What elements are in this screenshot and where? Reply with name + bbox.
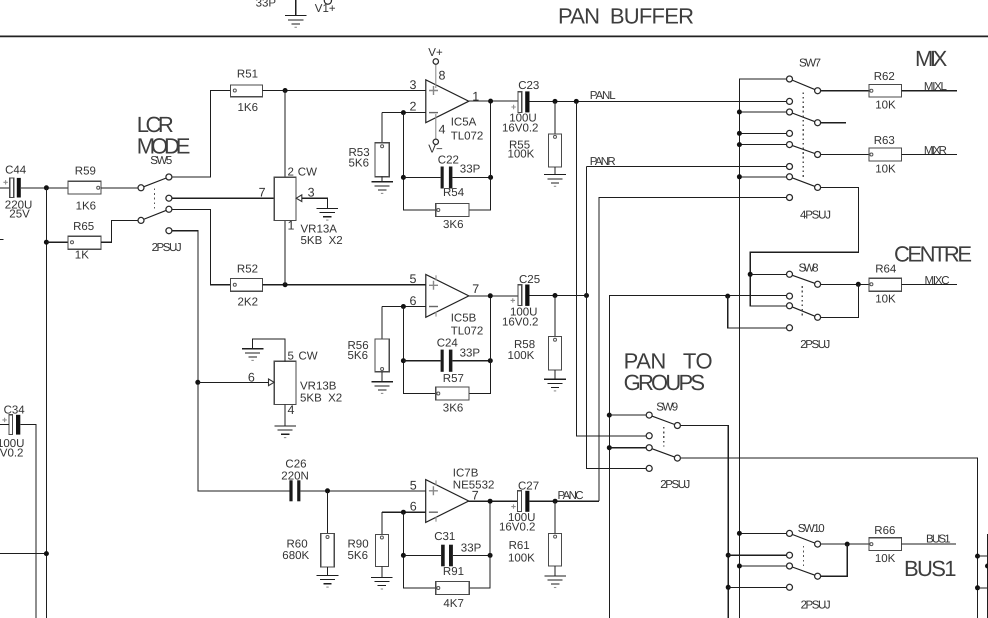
op-amp IC7B [426,480,469,523]
switch SW7 contacts [787,76,793,82]
node junction R64 in [856,282,861,287]
resistor R91 4K7 [436,582,469,595]
wire (C25 out row) [530,295,587,297]
node junction right bus upper [975,554,980,559]
capacitor C34 100U 16V0.2 (clipped at left) [2,415,20,435]
ground (R58) [544,379,566,391]
svg-text:SW10: SW10 [798,523,825,535]
svg-text:V−: V− [428,144,443,156]
switch SW8 gang dotted link [801,286,803,316]
svg-text:C44: C44 [5,165,27,177]
resistor R62 10K [869,84,901,97]
switch SW9 contacts [646,412,652,418]
title separator line [0,35,988,37]
wire (SW10 pole1 common to R66) [818,543,870,545]
svg-text:IC5A: IC5A [451,117,477,129]
svg-text:CW: CW [299,351,318,363]
svg-text:SW9: SW9 [656,402,678,414]
svg-text:16V0.2: 16V0.2 [502,123,538,135]
node junction IC7B pin6 [401,510,406,515]
svg-text:10K: 10K [875,100,896,112]
wire (tap down to SW8 pole2 throw) [728,296,787,328]
wire (junction down to VR13A pin2) [284,91,286,178]
svg-text:7: 7 [259,186,266,200]
svg-text:C27: C27 [518,481,539,493]
wire (R61 riser) [554,501,556,533]
svg-text:5: 5 [288,351,294,363]
switch SW7 pole2 arm [790,112,818,123]
wire (SW5 pole2 throw2 down to VR13B/C26) [169,231,290,491]
wire PANC riser (x=599) [599,198,787,502]
wire (R53 to ground) [381,177,383,182]
node junction right edge [985,564,988,569]
node junction C31 right [488,553,493,558]
wire mono bus (x=739) [739,79,786,618]
wire (SW7 pole4 common down to SW8 feed) [750,187,858,305]
svg-text:R91: R91 [443,566,464,578]
svg-text:100K: 100K [508,148,535,160]
node junction bottom-left [44,551,49,556]
wire (SW5 throw1 to R51 riser) [169,91,231,178]
svg-text:C34: C34 [4,405,26,417]
wire (C23 out / PANL row) [530,100,787,102]
node junction bus tap (SW10 pole1 throw1) [737,531,742,536]
wire (feed to SW10 pole2 throw2) [728,586,787,588]
wire (right edge vertical) [987,534,988,618]
ground (VR13B pin5) [242,349,264,361]
wire (R64 to MIXC) [901,283,956,285]
svg-text:8: 8 [439,69,446,83]
svg-text:R52: R52 [237,264,258,276]
node junction R55 tap [553,99,558,104]
svg-text:R90: R90 [348,539,369,551]
resistor R64 10K [869,278,901,291]
wire (SW10 pole2 common up to R66 in) [818,544,848,576]
wire PANL drop (x=576) [576,101,646,435]
switch SW8 pole1 arm [790,274,818,284]
svg-text:1K: 1K [75,250,89,262]
wire (C27 out / PANC row) [529,500,598,502]
resistor R61 100K (vertical) [549,534,562,566]
svg-text:5: 5 [410,478,417,492]
wire (right bus stub lower) [978,587,988,589]
svg-text:C22: C22 [438,155,459,167]
svg-text:BUS1: BUS1 [904,556,957,581]
svg-text:GROUPS: GROUPS [624,370,706,395]
svg-text:4K7: 4K7 [443,598,463,610]
wire (IC7B pin6 net) [382,511,426,513]
svg-text:3K6: 3K6 [443,219,463,231]
svg-text:33P: 33P [460,348,481,360]
svg-text:R54: R54 [443,187,465,199]
resistor R60 680K (vertical) [321,534,335,567]
node V1+ terminal circle [324,0,331,4]
svg-text:33P: 33P [256,0,277,10]
svg-text:MIXL: MIXL [924,81,948,93]
svg-text:VR13B: VR13B [300,381,337,393]
svg-text:16V0.2: 16V0.2 [0,448,23,460]
wire (R51 out to IC5A pin3) [262,90,425,92]
wire (C44 to junction) [21,187,68,189]
wire (R90 to ground) [381,566,383,577]
wire (R65 to SW5 pole2) [101,220,138,242]
wire PANR row to SW7 [587,166,787,168]
wire (C31 row right) [453,554,490,556]
wire stub (left edge) [0,238,4,240]
svg-text:33P: 33P [461,543,482,555]
svg-text:R62: R62 [874,71,895,83]
wire (R60 to ground) [327,567,329,576]
node junction SW10 pole1 feed [726,553,731,558]
ground (R90) [371,577,393,589]
wire (C31 row left) [403,554,441,556]
wire (R63 to MIXR) [901,154,956,156]
svg-text:2PSUJ: 2PSUJ [152,242,182,254]
wire (SW7 pole3 common to R63) [818,154,870,156]
svg-text:2: 2 [288,167,294,179]
svg-text:5K6: 5K6 [348,550,368,562]
wire (IC7B output to C27) [469,500,518,502]
wire (bus to SW7 pole3 throw1) [739,144,786,146]
switch SW10 pole1 arm [790,533,818,544]
svg-text:PANL: PANL [590,90,617,102]
wire (C22 row left) [403,176,440,178]
wire (R61 to ground) [554,566,556,576]
wire (SW7 pole2 common stub) [818,122,846,124]
switch SW5 pole1 arm [141,177,169,188]
svg-text:2PSUJ: 2PSUJ [660,479,690,491]
svg-text:10K: 10K [875,294,896,306]
svg-text:7: 7 [472,489,479,503]
wire (SW9 pole1 common down to SW10 feeds) [677,426,728,618]
switch SW7 pole1 arm [790,79,818,91]
wire (C34 to down rail) [20,424,36,618]
power stub (IC5B top) [435,275,437,280]
switch SW8 contacts [787,271,793,277]
wire (VR13B pin5 up over to ground) [253,339,286,361]
node junction PANR riser [584,293,589,298]
svg-text:SW8: SW8 [799,262,819,274]
capacitor C25 100U 16V0.2 [511,285,530,306]
svg-text:4PSUJ: 4PSUJ [800,210,831,222]
svg-text:MIXR: MIXR [924,145,947,157]
svg-text:PANC: PANC [558,490,584,502]
svg-text:2K2: 2K2 [238,296,258,308]
node junction PANL branch [574,99,579,104]
svg-text:5K6: 5K6 [349,158,369,170]
wire (R59 to SW5) [101,187,138,189]
wire (feed to SW10 pole1 throw2) [728,554,787,556]
wire (SW8 pole2 common up to R64 in) [818,284,859,317]
wire (feedback riser left IC5B) [403,307,435,394]
potentiometer VR13B 5KB X2 [269,361,297,404]
op-amp IC5A [426,80,469,123]
wire (C24 row right) [452,360,490,362]
node junction C22 right [488,175,493,180]
wire (R56 tap) [381,307,383,340]
resistor R51 1K6 [230,85,262,97]
wire external feed (x=609) [609,296,787,618]
svg-text:SW7: SW7 [799,57,821,69]
svg-text:680K: 680K [282,550,309,562]
switch SW9 pole1 arm [649,415,677,425]
node junction SW9 pole1 feed [607,413,612,418]
wire (feedback riser left IC5A) [403,113,435,210]
svg-text:TL072: TL072 [451,131,484,143]
wire (R52 out to IC5B pin5) [262,284,425,286]
svg-text:C24: C24 [437,338,459,350]
node junction IC7B out [488,499,493,504]
svg-text:C26: C26 [285,459,306,471]
wire (feedback riser right IC7B) [469,501,490,588]
svg-text:IC7B: IC7B [453,468,479,480]
switch SW9 gang dotted link [663,427,665,447]
wire (feedback riser right IC5B) [469,296,490,394]
wire (C26 out to IC7B pin5) [300,490,425,492]
node junction SW8 pole1 feed [748,272,753,277]
svg-text:R66: R66 [874,525,895,537]
node junction bus tap (SW10 pole2 throw1) [737,564,742,569]
svg-text:1K6: 1K6 [76,200,96,212]
svg-text:MIX: MIX [915,46,948,71]
svg-text:5: 5 [410,272,417,286]
node junction IC5B out [488,293,493,298]
wire (feedback riser left IC7B) [403,512,435,588]
node junction IC5B pin6 [401,304,406,309]
wire (feed to SW9 pole1 throw1) [609,414,646,416]
switch SW10 contacts [787,530,793,536]
ground (R56) [371,382,393,394]
svg-text:CW: CW [298,167,317,179]
svg-text:PAN BUFFER: PAN BUFFER [558,3,694,28]
svg-text:3: 3 [308,186,315,200]
resistor R58 100K (vertical) [549,337,562,371]
wire (SW5 pole2 throw1 to R52 riser) [169,209,231,284]
node junction C24 right [488,358,493,363]
svg-text:PANR: PANR [590,156,616,168]
switch SW10 pole2 arm [790,566,818,576]
node junction C31 left [401,553,406,558]
wire (bus to SW7 pole2 throw2) [739,132,786,134]
wire (SW8 pole1 common to R64) [818,283,870,285]
svg-text:R63: R63 [874,135,895,147]
node junction right bus lower [975,585,980,590]
svg-text:V+: V+ [428,47,443,59]
svg-text:1: 1 [288,219,295,233]
svg-text:R57: R57 [443,373,464,385]
svg-text:16V0.2: 16V0.2 [502,316,538,328]
ground (VR13A wiper) [317,208,339,220]
power stub (IC5B bottom) [435,312,437,317]
resistor R59 1K6 [68,181,101,194]
wire (tap to VR13B wiper) [198,381,269,383]
node junction VR13B wiper tap [195,380,200,385]
resistor R53 5K6 (vertical) [375,143,389,177]
svg-text:R64: R64 [875,263,897,275]
resistor R55 100K (vertical) [549,134,562,167]
wire (VR13A pin1 down to junction) [284,221,286,285]
svg-text:MIXC: MIXC [925,275,950,287]
wire (SW9 pole2 common to right bus) [677,458,977,618]
ground (R53) [371,182,393,194]
node junction R58 tap [553,293,558,298]
wire (IC5A pin2 net) [382,112,426,114]
svg-text:33P: 33P [460,164,481,176]
svg-text:4: 4 [439,123,446,137]
wire (bus to SW10 pole1 throw1) [739,532,786,534]
wire (R66 to BUS1) [901,543,956,545]
svg-text:6: 6 [410,500,417,514]
svg-text:2PSUJ: 2PSUJ [801,599,831,611]
wire (junction down the left rail) [45,188,47,618]
wire (feed to SW9 pole2 throw1) [609,447,646,449]
wire (IC5B pin6 net) [382,306,426,308]
node junction R65 tap [44,240,49,245]
wire (input to C44) [0,187,10,189]
svg-text:R51: R51 [237,69,258,81]
node junction PANC [553,499,558,504]
wire (R53 tap) [381,113,383,143]
wire (SW7 pole1 common to R62) [818,90,870,92]
svg-text:R61: R61 [509,540,530,552]
wire (C22 row right) [452,176,490,178]
power pin V- (IC5A pin 4) [433,114,438,145]
wire (VR13B pin4 to ground) [284,404,286,426]
svg-text:5K6: 5K6 [348,350,368,362]
wire (IC5A output to C23) [469,100,518,102]
resistor R56 5K6 (vertical) [375,339,389,372]
svg-text:100K: 100K [508,350,535,362]
switch SW5 contacts [138,185,144,191]
svg-text:16V0.2: 16V0.2 [499,522,535,534]
wire (right bus stub upper) [978,555,988,557]
switch SW7 gang dotted link [802,92,804,177]
power stub (IC7B bottom) [435,517,437,522]
capacitor C31 33P [441,545,453,567]
switch SW9 pole2 arm [649,448,677,458]
wire (R58 to ground) [554,370,556,379]
svg-text:10K: 10K [875,163,896,175]
resistor R90 5K6 (vertical) [375,534,388,566]
resistor R57 3K6 [436,387,469,400]
node junction R52 out [283,282,288,287]
svg-text:C31: C31 [434,531,455,543]
svg-text:IC5B: IC5B [451,312,477,324]
wire (left edge into C34) [0,423,9,425]
svg-text:VR13A: VR13A [301,223,338,235]
svg-text:5KB X2: 5KB X2 [301,235,343,247]
ground (VR13B pin4) [274,426,296,438]
switch SW8 pole2 arm [790,306,818,318]
node junction C24 left [401,358,406,363]
resistor R63 10K [869,148,901,161]
resistor R66 10K [869,538,901,551]
svg-text:1K6: 1K6 [238,102,258,114]
wire (junction to R65) [46,241,68,243]
wire (R55 to ground) [554,167,556,175]
switch SW7 pole4 arm [790,177,818,188]
ground (top, V1 area) [285,16,307,28]
node junction SW10 pole2 feed [726,585,731,590]
switch SW5 gang dotted link [153,189,155,209]
wire (C24 row left) [403,360,440,362]
switch SW5 pole2 arm [141,209,169,220]
capacitor C22 33P [441,167,453,189]
power stub (IC7B top) [435,480,437,485]
svg-text:V1+: V1+ [315,3,336,15]
svg-text:10K: 10K [875,553,896,565]
svg-text:2PSUJ: 2PSUJ [800,339,830,351]
wire (SW5 throw2 to VR13A pin7) [169,197,274,199]
svg-text:3K6: 3K6 [443,402,463,414]
resistor R52 2K2 [230,279,262,292]
svg-text:C23: C23 [518,80,539,92]
wire (VR13A wiper to ground) [302,198,328,208]
potentiometer VR13A 5KB X2 [274,177,302,220]
svg-text:25V: 25V [9,209,30,221]
capacitor C26 220N [289,480,300,501]
ground (R61) [544,576,566,588]
wire (bus to SW7 pole2 throw1) [739,111,786,113]
wire (feed to SW8 pole1 throw1) [750,273,787,275]
wire (R55 riser) [554,101,556,133]
node junction bus tap (SW7 pole2 throw1) [737,110,742,115]
switch SW10 gang dotted link [803,546,805,566]
node junction C22 left [401,175,406,180]
wire (R90 tap) [381,512,383,534]
wire (R56 to ground) [381,372,383,382]
capacitor C23 100U 16V0.2 [511,91,529,112]
node junction C44 out [44,185,49,190]
ground (R60) [317,575,339,587]
svg-text:C25: C25 [519,274,540,286]
capacitor C44 220U 25V [3,178,20,198]
node junction SW9 pole2 feed [607,445,612,450]
wire (bottom-left horizontal into rail) [0,553,46,555]
op-amp IC5B [426,275,469,318]
wire (R58 riser) [554,296,556,337]
wire (top ground stem) [295,0,297,16]
node junction R66 in [845,542,850,547]
svg-text:R59: R59 [75,166,96,178]
svg-text:7: 7 [472,282,479,296]
switch SW7 pole3 arm [790,145,818,155]
svg-text:3: 3 [410,78,417,92]
svg-text:6: 6 [410,294,417,308]
svg-text:R65: R65 [73,221,94,233]
capacitor C27 100U 16V0.2 [511,491,529,512]
wire (R60 riser) [327,491,329,534]
svg-text:MODE: MODE [137,133,191,158]
node junction IC5A pin2 [401,110,406,115]
node junction bus tap (SW7 pole3 throw1) [737,142,742,147]
svg-text:100K: 100K [508,553,535,565]
svg-text:TL072: TL072 [451,325,484,337]
node junction IC5A out [488,99,493,104]
power pin V+ (IC5A pin 8) [433,59,438,88]
wire (feedback riser right IC5A) [469,101,491,210]
wire PANR riser/drop (x=586) [587,167,647,469]
node junction SW8 row tap [725,294,730,299]
wire (IC5B output to C25) [469,295,518,297]
resistor R54 3K6 [436,204,469,217]
node junction R51 out [283,88,288,93]
resistor R65 1K [68,236,101,249]
node junction bus tap (SW7 pole2 throw2) [737,131,742,136]
svg-text:CENTRE: CENTRE [894,242,972,267]
wire (bus to SW7 pole4 throw1) [739,176,786,178]
node junction R60 tap [325,488,330,493]
